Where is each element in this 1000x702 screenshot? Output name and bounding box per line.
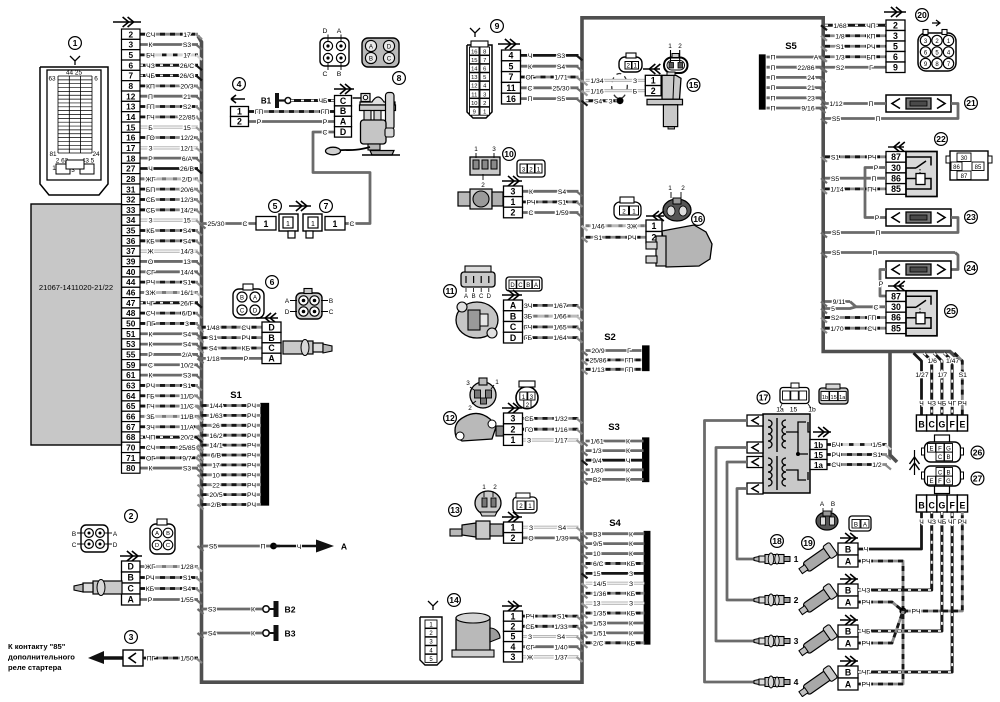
svg-text:5: 5 (273, 201, 278, 211)
svg-text:B: B (72, 531, 76, 538)
svg-text:1/80: 1/80 (590, 467, 603, 474)
svg-text:К: К (149, 373, 153, 380)
svg-text:ЧБ: ЧБ (146, 73, 156, 80)
svg-text:Ч: Ч (528, 53, 533, 60)
svg-text:2: 2 (468, 405, 472, 412)
svg-text:П: П (771, 55, 776, 62)
svg-text:ГЧ: ГЧ (146, 404, 154, 411)
svg-text:C: C (166, 543, 170, 549)
svg-text:26/F: 26/F (180, 300, 194, 307)
svg-text:18: 18 (126, 153, 136, 163)
svg-text:РЧ: РЧ (861, 600, 870, 607)
svg-text:26: 26 (212, 423, 220, 430)
svg-text:ГО: ГО (146, 135, 155, 142)
svg-text:1/37: 1/37 (554, 655, 567, 662)
svg-text:22/86: 22/86 (797, 65, 814, 72)
svg-text:S4: S4 (183, 342, 192, 349)
svg-text:9: 9 (893, 62, 898, 72)
svg-text:1/35: 1/35 (593, 611, 606, 618)
svg-text:S4: S4 (558, 189, 567, 196)
svg-text:СЧ: СЧ (146, 32, 155, 39)
svg-text:Р: Р (874, 165, 879, 172)
svg-text:S1: S1 (183, 280, 192, 287)
svg-text:РЧ: РЧ (247, 482, 256, 489)
svg-text:B: B (340, 106, 346, 116)
svg-text:14/5: 14/5 (593, 581, 606, 588)
svg-text:12: 12 (471, 84, 477, 90)
svg-text:РЧ: РЧ (627, 235, 636, 242)
svg-text:2: 2 (511, 533, 516, 543)
svg-text:4: 4 (509, 51, 514, 61)
svg-text:B: B (369, 55, 373, 62)
svg-text:ГП: ГП (146, 104, 155, 111)
svg-text:ГП: ГП (255, 109, 264, 116)
svg-text:ГЧ: ГЧ (146, 114, 154, 121)
svg-text:39: 39 (126, 257, 136, 267)
svg-text:1/51: 1/51 (593, 631, 606, 638)
svg-text:1/64: 1/64 (553, 335, 566, 342)
svg-text:S5: S5 (785, 41, 797, 52)
svg-text:D: D (253, 308, 258, 314)
svg-text:1/7: 1/7 (938, 372, 948, 379)
svg-text:СБ: СБ (525, 624, 535, 631)
svg-text:Б: Б (633, 88, 638, 95)
svg-text:15: 15 (126, 122, 136, 132)
svg-text:C: C (268, 343, 275, 353)
svg-text:3: 3 (511, 652, 516, 662)
svg-text:15: 15 (471, 58, 477, 64)
svg-text:К: К (629, 551, 633, 558)
svg-text:1b: 1b (814, 441, 823, 450)
svg-text:D: D (113, 542, 118, 549)
svg-text:11: 11 (445, 286, 454, 296)
svg-text:КБ: КБ (627, 611, 636, 618)
svg-text:ЗБ: ЗБ (146, 414, 155, 421)
svg-text:11: 11 (471, 92, 477, 98)
svg-text:15: 15 (183, 218, 191, 225)
svg-text:1b: 1b (822, 395, 828, 401)
svg-text:К: К (629, 631, 633, 638)
svg-text:РЧ: РЧ (861, 559, 870, 566)
svg-text:6: 6 (270, 277, 275, 287)
svg-text:РЧ: РЧ (145, 575, 154, 582)
svg-text:СБ: СБ (146, 197, 156, 204)
svg-text:ЧГ: ЧГ (146, 300, 155, 307)
svg-text:10: 10 (504, 149, 514, 159)
svg-text:Р: Р (879, 281, 884, 288)
svg-text:РЧ: РЧ (526, 200, 535, 207)
svg-text:C: C (929, 420, 936, 430)
svg-text:3: 3 (483, 92, 486, 98)
svg-text:2: 2 (129, 511, 134, 521)
svg-text:S1: S1 (594, 235, 603, 242)
svg-text:17: 17 (183, 52, 191, 59)
svg-text:3: 3 (466, 380, 470, 387)
svg-text:B: B (526, 283, 530, 289)
svg-text:2: 2 (626, 63, 630, 70)
svg-text:S4: S4 (183, 586, 192, 593)
svg-text:15: 15 (593, 571, 601, 578)
svg-text:РЧ: РЧ (146, 280, 155, 287)
svg-text:B1: B1 (261, 97, 272, 106)
svg-text:14: 14 (449, 595, 459, 605)
svg-text:СЧ: СЧ (867, 326, 876, 333)
svg-text:ЗБ: ЗБ (524, 314, 533, 321)
svg-text:1/67: 1/67 (553, 303, 566, 310)
svg-text:Ж: Ж (527, 655, 534, 662)
svg-text:8: 8 (397, 73, 402, 83)
svg-text:7: 7 (509, 72, 514, 82)
svg-text:1/36: 1/36 (593, 591, 606, 598)
svg-text:2: 2 (794, 595, 799, 605)
svg-text:D: D (510, 283, 515, 289)
svg-text:26/G: 26/G (180, 73, 195, 80)
svg-text:B: B (845, 668, 851, 678)
svg-text:1/13: 1/13 (591, 367, 604, 374)
svg-text:15: 15 (183, 125, 191, 132)
svg-text:17: 17 (759, 393, 769, 403)
svg-text:КБ: КБ (146, 586, 155, 593)
svg-text:S4: S4 (594, 98, 603, 105)
svg-text:A: A (340, 117, 347, 127)
svg-text:К: К (149, 331, 153, 338)
svg-text:A: A (845, 598, 852, 608)
svg-text:2/B: 2/B (211, 502, 222, 509)
svg-text:C: C (938, 455, 943, 461)
svg-text:20: 20 (917, 10, 927, 20)
svg-text:Г: Г (869, 65, 873, 72)
svg-text:64: 64 (126, 391, 136, 401)
svg-text:СГ: СГ (146, 269, 155, 276)
svg-text:БП: БП (146, 187, 155, 194)
svg-text:F: F (950, 420, 956, 430)
svg-text:О: О (528, 536, 533, 543)
svg-text:ЗЖ: ЗЖ (627, 223, 638, 230)
svg-text:К: К (629, 531, 633, 538)
svg-text:A: A (534, 283, 538, 289)
svg-text:27: 27 (973, 474, 983, 484)
svg-text:П: П (528, 96, 533, 103)
svg-text:61: 61 (126, 370, 136, 380)
svg-text:6/B: 6/B (211, 453, 222, 460)
svg-text:СБ: СБ (524, 416, 534, 423)
svg-text:РЧ: РЧ (958, 519, 967, 526)
svg-text:10: 10 (471, 101, 477, 107)
svg-text:9/4: 9/4 (592, 458, 602, 465)
svg-text:11/B: 11/B (180, 414, 194, 421)
svg-text:2/A: 2/A (182, 352, 193, 359)
svg-text:РЧ: РЧ (861, 641, 870, 648)
svg-text:D: D (387, 43, 392, 50)
svg-text:C: C (938, 471, 943, 477)
svg-text:1/68: 1/68 (833, 23, 846, 30)
svg-text:S3: S3 (183, 42, 192, 49)
svg-text:ГБ: ГБ (524, 335, 533, 342)
svg-text:СЧ: СЧ (831, 462, 840, 469)
svg-text:47: 47 (126, 298, 136, 308)
svg-text:A: A (337, 28, 342, 35)
svg-text:1/66: 1/66 (553, 314, 566, 321)
svg-text:1/55: 1/55 (180, 597, 193, 604)
svg-text:ЧП: ЧП (146, 435, 156, 442)
svg-text:87: 87 (961, 174, 968, 180)
svg-text:S5: S5 (831, 176, 840, 183)
svg-text:РЧ: РЧ (247, 472, 256, 479)
svg-text:реле стартера: реле стартера (8, 663, 62, 672)
svg-text:B: B (946, 471, 950, 477)
svg-text:15: 15 (790, 407, 798, 414)
svg-text:1: 1 (482, 484, 486, 491)
svg-text:2: 2 (128, 29, 133, 39)
svg-text:1/12: 1/12 (829, 101, 842, 108)
svg-text:П: П (261, 544, 266, 551)
svg-text:П: П (873, 250, 878, 257)
svg-text:1/16: 1/16 (554, 427, 567, 434)
svg-text:Г: Г (627, 348, 631, 355)
svg-text:В2: В2 (285, 604, 296, 614)
svg-text:2: 2 (678, 43, 682, 50)
svg-text:С: С (148, 362, 153, 369)
svg-text:ЖГ: ЖГ (146, 176, 156, 183)
svg-text:Р: Р (875, 215, 880, 222)
svg-text:1/71: 1/71 (554, 75, 567, 82)
svg-text:К: К (251, 631, 255, 638)
svg-text:C: C (387, 55, 392, 62)
svg-text:РЧ: РЧ (247, 463, 256, 470)
svg-text:12/2: 12/2 (180, 135, 193, 142)
svg-text:A: A (845, 680, 852, 690)
svg-text:63: 63 (126, 381, 136, 391)
svg-text:E: E (929, 447, 933, 453)
svg-text:3: 3 (511, 187, 516, 197)
svg-text:65: 65 (126, 401, 136, 411)
svg-text:А: А (814, 55, 819, 62)
svg-text:A: A (845, 557, 852, 567)
svg-text:B: B (240, 295, 244, 301)
svg-text:86: 86 (953, 165, 960, 171)
svg-text:1/33: 1/33 (554, 624, 567, 631)
svg-text:1/63: 1/63 (209, 413, 222, 420)
svg-text:1: 1 (73, 38, 78, 48)
svg-text:S4: S4 (557, 64, 566, 71)
svg-text:5: 5 (893, 41, 898, 51)
svg-text:67: 67 (126, 422, 136, 432)
svg-text:1/70: 1/70 (830, 326, 843, 333)
svg-text:К: К (149, 466, 153, 473)
svg-text:C: C (240, 308, 245, 314)
svg-text:A: A (510, 301, 517, 311)
svg-text:ЗЧ: ЗЧ (524, 303, 533, 310)
svg-text:А: А (341, 542, 347, 552)
svg-text:ЧГ: ЧГ (948, 401, 957, 408)
svg-text:S3: S3 (208, 607, 217, 614)
svg-text:D: D (510, 333, 516, 343)
svg-text:87: 87 (891, 291, 901, 301)
svg-text:20/6: 20/6 (180, 187, 193, 194)
svg-text:53: 53 (126, 339, 136, 349)
svg-text:1: 1 (511, 435, 516, 445)
svg-text:21067-1411020-21/22: 21067-1411020-21/22 (39, 283, 113, 292)
svg-text:СБ: СБ (146, 207, 156, 214)
svg-text:1: 1 (511, 611, 516, 621)
svg-text:21: 21 (807, 85, 815, 92)
svg-text:3: 3 (185, 321, 189, 328)
svg-text:D: D (285, 309, 290, 316)
svg-text:C: C (479, 294, 484, 300)
svg-text:B: B (268, 333, 274, 343)
svg-text:СЧ: СЧ (241, 325, 250, 332)
svg-text:3: 3 (511, 414, 516, 424)
svg-text:1/34: 1/34 (590, 78, 603, 85)
svg-text:50: 50 (126, 319, 136, 329)
svg-text:17: 17 (126, 143, 136, 153)
svg-text:В3: В3 (285, 628, 296, 638)
svg-text:25: 25 (946, 306, 956, 316)
svg-text:С: С (350, 221, 355, 228)
svg-text:C: C (72, 542, 77, 549)
svg-text:9/5: 9/5 (593, 541, 603, 548)
svg-text:14: 14 (471, 67, 478, 73)
svg-text:1: 1 (311, 221, 315, 228)
svg-text:71: 71 (126, 453, 136, 463)
svg-text:S4: S4 (183, 238, 192, 245)
svg-text:S1: S1 (183, 383, 192, 390)
svg-text:З: З (629, 581, 633, 588)
svg-text:Р: Р (148, 352, 153, 359)
svg-text:S1: S1 (873, 452, 882, 459)
svg-text:85: 85 (891, 184, 901, 194)
svg-text:РЧ: РЧ (247, 403, 256, 410)
svg-text:РЧ: РЧ (247, 443, 256, 450)
svg-text:S4: S4 (609, 518, 621, 529)
svg-text:C: C (518, 283, 523, 289)
svg-text:16/2: 16/2 (209, 433, 222, 440)
svg-text:2: 2 (529, 166, 533, 173)
svg-text:F: F (938, 479, 942, 485)
svg-text:РЧ: РЧ (866, 44, 875, 51)
svg-text:13: 13 (593, 601, 601, 608)
svg-text:2/D: 2/D (182, 176, 193, 183)
svg-text:3: 3 (129, 632, 134, 642)
svg-text:К: К (528, 64, 532, 71)
svg-text:П: П (771, 95, 776, 102)
svg-text:П: П (876, 230, 881, 237)
svg-text:П: П (876, 116, 881, 123)
svg-text:22: 22 (212, 482, 220, 489)
svg-text:РЧ: РЧ (867, 154, 876, 161)
svg-text:З: З (527, 438, 531, 445)
svg-text:П: П (771, 85, 776, 92)
svg-text:1/53: 1/53 (593, 621, 606, 628)
svg-text:ЧЗ: ЧЗ (862, 588, 871, 595)
svg-text:A: A (155, 531, 159, 537)
svg-text:G: G (946, 479, 951, 485)
svg-text:1: 1 (495, 379, 499, 386)
svg-text:26/C: 26/C (180, 63, 194, 70)
svg-text:A: A (845, 639, 852, 649)
svg-text:1/32: 1/32 (554, 416, 567, 423)
svg-text:1/16: 1/16 (590, 88, 603, 95)
svg-text:7: 7 (128, 71, 133, 81)
svg-text:С: С (243, 221, 248, 228)
svg-text:5: 5 (831, 306, 835, 313)
svg-text:19: 19 (803, 538, 813, 548)
svg-text:15: 15 (814, 451, 823, 460)
svg-text:16: 16 (693, 214, 703, 224)
svg-text:86: 86 (891, 173, 901, 183)
svg-text:1/6: 1/6 (927, 358, 937, 365)
svg-text:S3: S3 (183, 466, 192, 473)
svg-text:S1: S1 (836, 44, 845, 51)
svg-text:6: 6 (94, 76, 98, 83)
svg-text:1: 1 (651, 76, 656, 86)
svg-text:П: П (148, 94, 153, 101)
svg-text:B: B (472, 294, 476, 300)
svg-text:11/D: 11/D (180, 393, 194, 400)
svg-text:B: B (854, 522, 858, 529)
svg-text:32: 32 (126, 195, 136, 205)
svg-text:S4: S4 (558, 525, 567, 532)
svg-text:1: 1 (286, 221, 290, 228)
svg-text:ОГ: ОГ (146, 455, 155, 462)
svg-text:D: D (323, 28, 328, 35)
svg-text:40: 40 (126, 267, 136, 277)
svg-text:S1: S1 (230, 390, 242, 401)
svg-text:Р: Р (148, 597, 153, 604)
svg-text:23: 23 (966, 212, 976, 222)
svg-text:17: 17 (183, 32, 191, 39)
svg-text:68: 68 (126, 432, 136, 442)
svg-text:Ч: Ч (919, 519, 924, 526)
svg-text:20/2: 20/2 (180, 435, 193, 442)
svg-text:S4: S4 (557, 634, 566, 641)
svg-text:1/48: 1/48 (206, 325, 219, 332)
svg-text:З: З (629, 571, 633, 578)
svg-text:РЧ: РЧ (861, 682, 870, 689)
svg-text:БП: БП (866, 54, 875, 61)
svg-text:С: С (528, 85, 533, 92)
svg-text:Ч: Ч (626, 458, 631, 465)
svg-text:ЧГ: ЧГ (862, 670, 871, 677)
svg-text:КБ: КБ (627, 591, 636, 598)
svg-text:ГП: ГП (321, 109, 330, 116)
svg-text:СЧ: СЧ (146, 445, 155, 452)
svg-text:1: 1 (537, 166, 541, 173)
svg-text:B: B (845, 627, 851, 637)
svg-text:20/9: 20/9 (591, 348, 604, 355)
svg-text:ПГ: ПГ (147, 656, 156, 663)
svg-text:Р: Р (148, 156, 153, 163)
svg-text:3: 3 (492, 146, 496, 153)
svg-text:ЧБ: ЧБ (937, 401, 947, 408)
svg-text:12: 12 (126, 91, 136, 101)
svg-text:S2: S2 (836, 65, 845, 72)
svg-text:БЧ: БЧ (832, 442, 841, 449)
svg-text:1/61: 1/61 (590, 439, 603, 446)
svg-text:30: 30 (891, 302, 901, 312)
svg-text:З: З (629, 601, 633, 608)
svg-text:S3: S3 (183, 373, 192, 380)
svg-text:S1: S1 (183, 575, 192, 582)
svg-text:10: 10 (212, 472, 220, 479)
svg-text:РЧ: РЧ (247, 492, 256, 499)
svg-text:33: 33 (126, 205, 136, 215)
svg-text:A: A (113, 531, 118, 538)
svg-text:D: D (340, 127, 346, 137)
svg-text:E: E (960, 501, 966, 511)
svg-text:К: К (149, 42, 153, 49)
svg-text:8: 8 (128, 81, 133, 91)
